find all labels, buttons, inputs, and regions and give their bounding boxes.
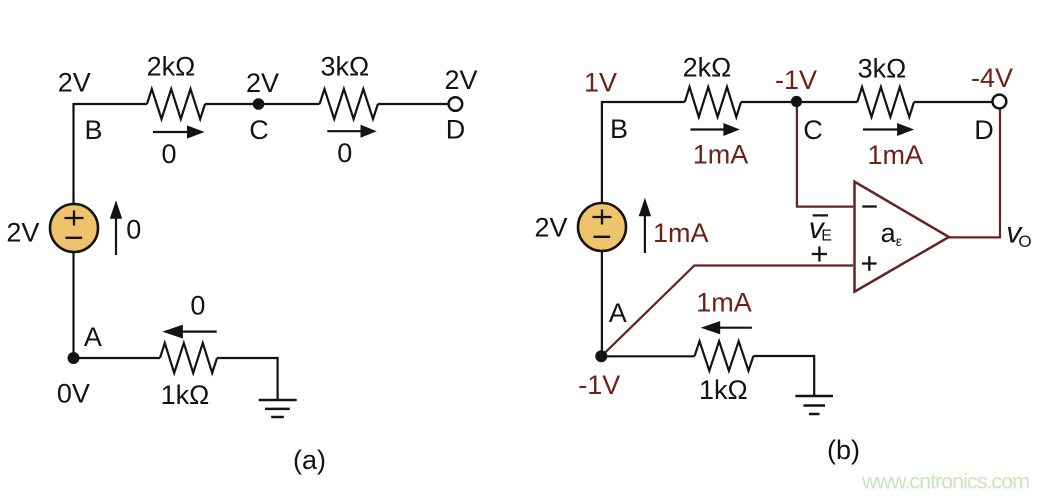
svg-text:(a): (a)	[293, 445, 326, 475]
svg-text:-1V: -1V	[578, 370, 620, 400]
svg-text:D: D	[446, 115, 466, 145]
svg-text:2kΩ: 2kΩ	[683, 53, 732, 83]
svg-text:1mA: 1mA	[653, 218, 709, 248]
svg-text:D: D	[974, 115, 994, 145]
svg-text:-1V: -1V	[775, 65, 817, 95]
svg-text:2V: 2V	[58, 67, 91, 97]
svg-text:1kΩ: 1kΩ	[161, 380, 210, 410]
svg-text:2V: 2V	[534, 212, 567, 242]
svg-text:0: 0	[161, 139, 176, 169]
svg-text:1kΩ: 1kΩ	[699, 375, 748, 405]
svg-text:-4V: -4V	[971, 63, 1013, 93]
svg-text:1V: 1V	[584, 68, 617, 98]
svg-text:A: A	[609, 298, 627, 328]
svg-text:1mA: 1mA	[868, 140, 924, 170]
svg-text:3kΩ: 3kΩ	[858, 54, 907, 84]
svg-text:2V: 2V	[246, 68, 279, 98]
svg-text:www.cntronics.com: www.cntronics.com	[861, 470, 1029, 494]
svg-text:2V: 2V	[6, 217, 39, 247]
svg-text:E: E	[821, 227, 832, 244]
svg-text:a: a	[881, 218, 897, 248]
svg-text:(b): (b)	[827, 435, 860, 465]
svg-text:ε: ε	[896, 233, 902, 249]
svg-text:B: B	[84, 115, 102, 145]
svg-text:O: O	[1018, 232, 1031, 251]
svg-text:0: 0	[337, 138, 352, 168]
svg-text:C: C	[249, 115, 269, 145]
svg-text:A: A	[84, 322, 102, 352]
svg-text:C: C	[803, 115, 823, 145]
svg-text:1mA: 1mA	[693, 139, 749, 169]
svg-text:2V: 2V	[444, 65, 477, 95]
svg-text:B: B	[610, 114, 628, 144]
svg-text:3kΩ: 3kΩ	[320, 51, 369, 81]
svg-text:0V: 0V	[57, 378, 90, 408]
svg-text:0: 0	[126, 215, 141, 245]
svg-text:2kΩ: 2kΩ	[147, 51, 196, 81]
svg-text:0: 0	[190, 291, 205, 321]
svg-text:1mA: 1mA	[696, 288, 752, 318]
